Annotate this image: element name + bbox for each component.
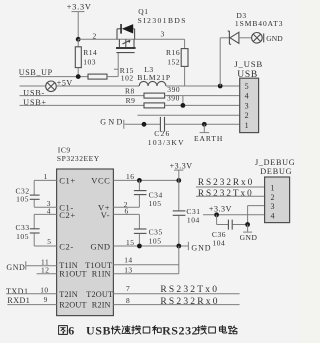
node junction EARTH <box>202 122 207 127</box>
resistor R16 152 <box>166 39 188 86</box>
transistor Q1 SI2301BDS (P-MOSFET with body diode) <box>116 7 187 52</box>
svg-text:3: 3 <box>271 202 276 211</box>
svg-text:R16: R16 <box>166 48 180 57</box>
pin 2 wire V+ <box>113 200 139 209</box>
capacitor C26 103/3KV <box>148 117 240 147</box>
node junction R14/USB_UP <box>76 74 81 79</box>
svg-text:R1IN: R1IN <box>92 270 111 279</box>
svg-text:USB_UP: USB_UP <box>19 68 53 77</box>
svg-text:GND: GND <box>100 117 125 126</box>
svg-text:6: 6 <box>125 207 129 216</box>
wire D3 branch vertical <box>219 38 221 86</box>
pin 1 wire <box>34 172 56 181</box>
pin 5 wire <box>34 237 56 246</box>
svg-text:14: 14 <box>124 255 133 264</box>
svg-text:12: 12 <box>41 265 50 274</box>
svg-text:152: 152 <box>167 57 180 66</box>
resistor R9 390 <box>126 93 240 108</box>
IC9 pin names right column <box>85 175 113 309</box>
svg-text:GND: GND <box>91 242 111 252</box>
node junction GND/C26 <box>142 122 147 127</box>
capacitor C34 105 <box>134 180 163 208</box>
svg-text:5: 5 <box>245 82 250 91</box>
net label RS232Rx0 + pin 8 wire <box>113 296 239 307</box>
svg-text:104: 104 <box>187 215 200 224</box>
power port GND left <box>6 261 25 272</box>
net label TXD1 + pin 10 wire <box>6 285 57 296</box>
svg-text:C2+: C2+ <box>59 210 75 220</box>
svg-text:105: 105 <box>149 236 162 245</box>
svg-text:R8: R8 <box>125 86 135 95</box>
svg-text:4: 4 <box>245 92 250 101</box>
svg-text:GND: GND <box>191 244 211 253</box>
svg-text:J_USB: J_USB <box>234 59 263 69</box>
diode D3 1SMB40AT3 (TVS) <box>220 11 283 44</box>
svg-text:6: 6 <box>68 324 75 338</box>
svg-text:SI2301BDS: SI2301BDS <box>138 16 187 25</box>
net label USB+ + wire <box>20 98 145 107</box>
svg-text:102: 102 <box>121 73 134 82</box>
svg-text:R2OUT: R2OUT <box>59 300 86 309</box>
net label RXD1 + pin 9 wire <box>7 295 56 305</box>
svg-text:105: 105 <box>149 199 162 208</box>
node junction on USB+ wire <box>181 103 186 108</box>
svg-text:+3.3V: +3.3V <box>67 2 92 11</box>
pin 11 wire <box>26 257 56 266</box>
resistor R8 390 <box>125 85 240 98</box>
svg-text:RS232: RS232 <box>162 324 198 338</box>
power symbol +5V (circle-X) <box>20 79 73 92</box>
wire J_DEBUG pin3 to GND <box>248 206 265 225</box>
svg-text:Q1: Q1 <box>138 7 148 16</box>
svg-text:T1IN: T1IN <box>59 261 78 270</box>
wire J_USB pin2 <box>138 114 240 116</box>
svg-text:+3.3V: +3.3V <box>170 161 193 170</box>
wire VBUS to J_USB pin5 <box>166 85 240 87</box>
svg-text:105: 105 <box>16 195 29 204</box>
svg-text:RS232Rx0: RS232Rx0 <box>198 177 254 187</box>
svg-text:4: 4 <box>47 206 51 215</box>
node junction C34/VCC <box>137 178 142 183</box>
power port GND (C26 row) <box>100 117 160 128</box>
pin 14 wire <box>113 255 178 264</box>
op-amp IC9 SP3232EEY body <box>57 145 114 315</box>
node junction C35/GND <box>137 244 142 249</box>
net label RS232Rx0 + J_DEBUG pin1 wire <box>196 177 265 187</box>
capacitor C36 104 <box>212 220 248 248</box>
net label RS232Tx0 + J_DEBUG pin2 wire <box>196 188 265 198</box>
wire C36 branch <box>217 215 229 225</box>
svg-text:1SMB40AT3: 1SMB40AT3 <box>235 19 284 28</box>
net label RS232Tx0 + pin 7 wire <box>113 284 239 295</box>
svg-text:R1OUT: R1OUT <box>59 270 86 279</box>
node junction +3.3V/C31/VCC <box>176 178 181 183</box>
svg-text:C33: C33 <box>16 223 30 232</box>
wire Q1 gate lead <box>117 53 119 77</box>
svg-text:103: 103 <box>83 58 96 67</box>
svg-text:GND: GND <box>6 263 25 272</box>
node junction C31/GND <box>176 244 181 249</box>
pin 15 wire GND <box>113 238 188 247</box>
pin 3 wire <box>34 199 56 208</box>
connector J_USB <box>234 59 263 133</box>
svg-text:2: 2 <box>93 32 97 41</box>
svg-text:VCC: VCC <box>91 175 110 185</box>
capacitor C35 105 <box>134 214 163 246</box>
svg-text:BLM21P: BLM21P <box>137 73 171 82</box>
svg-text:5: 5 <box>47 237 51 246</box>
svg-text:105: 105 <box>16 232 29 241</box>
svg-text:DEBUG: DEBUG <box>260 167 292 176</box>
svg-text:2: 2 <box>245 111 250 120</box>
svg-text:EARTH: EARTH <box>194 134 223 143</box>
svg-text:C35: C35 <box>149 227 163 236</box>
svg-text:4: 4 <box>271 211 276 220</box>
svg-text:GND: GND <box>240 233 258 242</box>
svg-text:1: 1 <box>271 183 276 192</box>
node junction +3.3V/C36 <box>214 212 219 217</box>
svg-text:TXD1: TXD1 <box>6 287 28 296</box>
capacitor C31 104 <box>173 180 201 246</box>
resistor R15 102 <box>88 66 134 83</box>
svg-text:7: 7 <box>126 284 130 293</box>
svg-text:RS232Rx0: RS232Rx0 <box>160 297 219 307</box>
svg-text:1: 1 <box>44 172 48 181</box>
net label USB- + wire <box>20 88 145 97</box>
node junction +3.3V/R14/Q1 <box>76 37 81 42</box>
svg-text:15: 15 <box>126 238 135 247</box>
IC9 pin names left column <box>59 175 86 309</box>
node junction C36/GND <box>245 222 250 227</box>
svg-text:9: 9 <box>44 295 48 304</box>
resistor R14 103 <box>75 39 97 76</box>
svg-text:RXD1: RXD1 <box>7 296 30 305</box>
capacitor C33 105 <box>16 214 40 246</box>
svg-text:C1+: C1+ <box>59 175 75 185</box>
net label USB_UP + wire <box>19 68 88 77</box>
svg-text:8: 8 <box>126 296 130 305</box>
svg-text:SP3232EEY: SP3232EEY <box>57 154 100 163</box>
svg-text:13: 13 <box>124 265 133 274</box>
svg-text:T2IN: T2IN <box>59 290 78 299</box>
wire link pin4-pin3 <box>182 96 184 106</box>
svg-text:J_DEBUG: J_DEBUG <box>255 158 295 167</box>
power +3.3V debug + pin 4 wire <box>203 205 265 215</box>
svg-text:3: 3 <box>161 29 165 38</box>
pin 16 wire VCC <box>113 172 178 181</box>
inductor L3 BLM21P <box>137 65 171 86</box>
power port GND right <box>188 242 211 253</box>
wire +5V to choke <box>56 85 139 87</box>
wire Q1 source rail <box>78 29 184 40</box>
svg-text:USB: USB <box>86 324 111 338</box>
power +3.3V top-left <box>67 2 92 39</box>
caption figure 6 title <box>59 324 238 338</box>
svg-text:2: 2 <box>271 193 276 202</box>
svg-text:16: 16 <box>126 172 135 181</box>
node junction D3 branch on VBUS <box>218 84 223 89</box>
svg-text:GND: GND <box>266 34 283 43</box>
pin 13 wire <box>113 265 178 274</box>
pin 6 wire V- <box>113 207 139 216</box>
pin 12 wire <box>37 265 57 274</box>
capacitor C32 105 <box>16 180 40 207</box>
svg-text:10: 10 <box>40 285 49 294</box>
power symbol GND after D3 (circle-X) <box>252 33 284 44</box>
pin 4 wire <box>34 206 56 215</box>
svg-text:R2IN: R2IN <box>92 300 111 309</box>
svg-text:3: 3 <box>245 101 250 110</box>
svg-text:C2-: C2- <box>59 242 73 252</box>
svg-text:1: 1 <box>245 121 250 130</box>
svg-text:T1OUT: T1OUT <box>85 261 112 270</box>
svg-text:R14: R14 <box>83 48 97 57</box>
connector J_DEBUG <box>255 158 295 222</box>
svg-text:V-: V- <box>101 210 110 220</box>
ground GND debug <box>240 225 258 243</box>
svg-text:104: 104 <box>212 238 225 247</box>
ground EARTH <box>194 124 223 143</box>
svg-text:103/3KV: 103/3KV <box>148 138 185 147</box>
svg-text:R9: R9 <box>126 96 136 105</box>
svg-text:+3.3V: +3.3V <box>209 205 232 214</box>
svg-text:390: 390 <box>167 93 180 102</box>
wire pin14/pin13 vertical <box>178 246 180 274</box>
svg-text:T2OUT: T2OUT <box>86 290 113 299</box>
power +3.3V mid <box>170 161 193 180</box>
